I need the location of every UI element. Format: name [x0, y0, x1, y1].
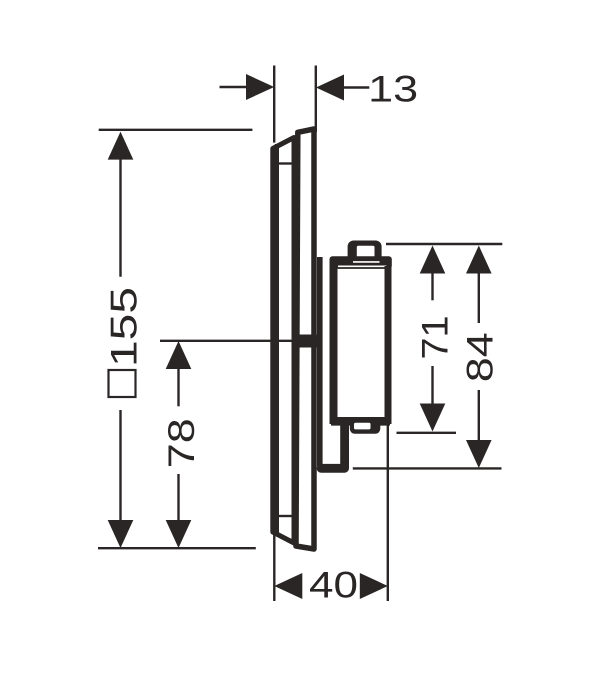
dimension line 71 lower segment — [431, 366, 433, 405]
extension line 155 top — [99, 129, 253, 131]
extension line 13 right — [315, 66, 317, 133]
dimension line 13 left segment — [220, 86, 251, 88]
arrowhead 78 bottom pointing down — [166, 520, 192, 548]
dimension line 78 upper segment — [177, 367, 179, 406]
svg-text:71: 71 — [414, 316, 456, 360]
extension line 40 left — [273, 534, 275, 601]
extension line 71 bottom — [397, 432, 457, 434]
collar highlight line 2 — [338, 265, 387, 267]
extension line 40 right — [387, 419, 389, 601]
svg-text:84: 84 — [459, 332, 501, 382]
svg-text:13: 13 — [368, 68, 418, 110]
dimension line 78 lower segment — [177, 474, 179, 522]
dimension line 71 upper segment — [431, 272, 433, 300]
wall flange bar — [317, 257, 323, 466]
extension line 78 top — [160, 340, 272, 342]
arrowhead 155 bottom pointing down — [108, 520, 134, 548]
arrowhead 13 right pointing left — [316, 75, 344, 101]
arrowhead 40 right pointing right — [360, 573, 388, 599]
dimension line 13 right segment — [340, 86, 369, 88]
svg-text:78: 78 — [160, 418, 202, 468]
escutcheon plate front face inner line — [275, 144, 279, 534]
cartridge lower tab notch — [354, 423, 371, 430]
extension line 71/84 top — [386, 243, 502, 245]
cartridge body right wall — [385, 266, 392, 424]
collar highlight line 1 — [353, 261, 380, 263]
plate centre seam band — [299, 335, 323, 348]
arrowhead 71 bottom pointing down — [420, 404, 446, 432]
cartridge body left wall — [330, 266, 338, 424]
escutcheon plate top tick — [279, 162, 293, 164]
valve stem and bottom cap — [321, 426, 345, 468]
cartridge collar — [330, 256, 392, 269]
arrowhead 40 left pointing left — [274, 573, 302, 599]
dimension line 84 upper segment — [478, 272, 480, 323]
cartridge top tab — [348, 241, 382, 264]
escutcheon plate front slab — [273, 138, 294, 544]
arrowhead 155 top pointing up — [108, 132, 134, 160]
svg-text:40: 40 — [309, 564, 358, 606]
arrowhead 84 top pointing up — [466, 246, 492, 274]
svg-text:155: 155 — [103, 287, 145, 367]
extension line 13 left — [273, 66, 275, 143]
arrowhead 78 top pointing up — [166, 341, 192, 369]
arrowhead 84 bottom pointing down — [466, 440, 492, 468]
extension line 155/78 bottom — [98, 547, 256, 549]
plate front seam line — [274, 340, 297, 342]
dimension line 84 lower segment — [478, 390, 480, 441]
label square 155 square symbol — [109, 370, 136, 397]
escutcheon plate bottom tick — [279, 515, 293, 517]
escutcheon plate rear slab — [296, 129, 314, 549]
cartridge body bottom border — [331, 417, 390, 426]
dimension line 155 lower segment — [119, 410, 121, 521]
cartridge top tab notch — [357, 246, 375, 258]
arrowhead 13 left pointing right — [246, 74, 274, 100]
arrowhead 71 top pointing up — [420, 246, 446, 274]
dimension line 155 upper segment — [119, 157, 121, 277]
cartridge lower tab — [350, 418, 381, 434]
extension line 84 bottom — [353, 467, 502, 469]
